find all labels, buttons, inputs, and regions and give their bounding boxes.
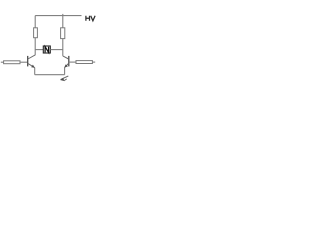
- transistor Q2 (right, NPN mirrored): [63, 56, 69, 68]
- wire: neon lamp right lead: [50, 49, 63, 51]
- resistor R4 right base: [76, 61, 92, 64]
- wire: right base input stub: [92, 61, 95, 63]
- label: HV: [86, 16, 95, 21]
- node: junction tick above HV rail: [62, 14, 64, 16]
- wire: right emitter lead: [64, 68, 66, 75]
- wire: left collector branch below R1: [34, 38, 36, 56]
- wire: right collector branch top: [62, 16, 64, 28]
- wire: neon lamp left lead: [35, 49, 43, 51]
- transistor Q1 (left, NPN): [28, 55, 36, 68]
- current arrow at emitter junction to negative supply: [60, 76, 68, 81]
- wire: left collector branch top: [34, 16, 36, 28]
- wire: right base lead: [69, 61, 76, 63]
- neon lamp N: [43, 46, 50, 53]
- wire: HV top rail: [35, 15, 81, 17]
- resistor R2 right collector load: [61, 28, 65, 39]
- wire: right collector branch below R2: [62, 39, 64, 56]
- wire: left emitter lead: [34, 68, 36, 75]
- wire: left base lead: [20, 61, 28, 63]
- resistor R3 left base: [4, 61, 20, 64]
- resistor R1 left collector load: [34, 28, 38, 38]
- wire: left base input stub: [1, 61, 4, 63]
- wire: common emitter rail: [35, 74, 65, 76]
